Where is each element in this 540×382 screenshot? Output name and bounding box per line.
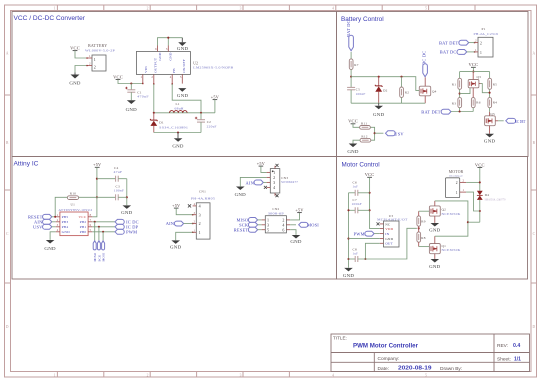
- svg-text:R12: R12: [361, 135, 367, 139]
- ground (CN2): [290, 235, 302, 244]
- svg-text:Sheet:: Sheet:: [497, 357, 511, 363]
- svg-text:ON/OFF: ON/OFF: [182, 59, 186, 73]
- svg-text:VCC: VCC: [113, 74, 123, 79]
- svg-text:GND: GND: [484, 138, 496, 143]
- net flag BAT DET (to P1 pin2): [439, 40, 474, 45]
- wire R10 left to RESET row: [55, 197, 67, 217]
- wire divider sense rail: [451, 111, 473, 113]
- svg-text:2: 2: [456, 181, 458, 185]
- section box Motor Control: [337, 157, 528, 280]
- ground (output filter): [172, 133, 184, 149]
- svg-text:OUT: OUT: [385, 242, 393, 246]
- svg-text:5: 5: [425, 373, 427, 377]
- IC U1 ATTINY85: [56, 203, 93, 236]
- svg-text:REV:: REV:: [497, 343, 508, 349]
- svg-text:D4: D4: [485, 193, 490, 197]
- wire U3 gnd row: [349, 238, 380, 240]
- capacitor C4 47uF: [97, 166, 127, 182]
- node junction RESET/R10: [54, 216, 56, 218]
- svg-text:PB4: PB4: [62, 225, 69, 229]
- svg-text:2: 2: [151, 75, 153, 79]
- svg-text:1: 1: [463, 188, 465, 192]
- svg-text:R8: R8: [421, 236, 425, 240]
- wire U1 GND pin: [50, 232, 56, 240]
- svg-text:6: 6: [155, 47, 157, 51]
- svg-text:3008-6P: 3008-6P: [268, 212, 284, 216]
- ground (driver rail): [343, 268, 355, 278]
- capacitor C5 100nF: [347, 77, 366, 104]
- svg-text:LM2596SX-5.0/NOPB: LM2596SX-5.0/NOPB: [193, 66, 234, 70]
- wire R10 right through C3: [79, 196, 116, 198]
- svg-text:PB3: PB3: [62, 220, 69, 224]
- svg-text:2: 2: [463, 178, 465, 182]
- wire CN3 pin2 to gnd: [240, 177, 266, 186]
- node junction gate tap: [459, 93, 461, 95]
- svg-text:PWM: PWM: [354, 231, 365, 236]
- svg-text:GND: GND: [62, 230, 70, 234]
- net flag MISO (vertical): [93, 241, 97, 262]
- capacitor C6 1uF: [349, 181, 370, 196]
- wire gnd rail left: [348, 193, 350, 268]
- svg-text:1/1: 1/1: [514, 357, 521, 363]
- svg-text:BC DC: BC DC: [422, 51, 427, 65]
- svg-text:3: 3: [199, 212, 201, 217]
- svg-text:PB5: PB5: [62, 215, 69, 219]
- IC U3 MCP1416: [377, 214, 408, 247]
- net flag SCK (vertical): [97, 241, 101, 262]
- wire USV tap to flag: [375, 132, 384, 134]
- resistor R2: [400, 77, 410, 104]
- diode D4 TVS: [477, 191, 506, 202]
- svg-text:SMAJ50A_C&0779: SMAJ50A_C&0779: [485, 198, 506, 201]
- resistor R9: [417, 211, 426, 230]
- resistor R11: [353, 121, 370, 129]
- transistor Q5: [485, 112, 498, 134]
- svg-text:USV: USV: [394, 131, 404, 136]
- resistor R7: [349, 59, 358, 70]
- svg-text:VCC: VCC: [348, 119, 358, 124]
- svg-text:+5V: +5V: [93, 162, 101, 167]
- wire OUTPUT down to switch node: [153, 84, 155, 113]
- svg-text:GND: GND: [343, 273, 355, 278]
- power flag VCC (battery input): [70, 46, 80, 51]
- svg-text:1: 1: [89, 54, 91, 58]
- svg-text:Company:: Company:: [378, 356, 400, 362]
- node junction motor pin2: [479, 181, 481, 183]
- svg-text:Q5: Q5: [490, 112, 495, 116]
- net flag BAT DET (divider sense): [421, 109, 451, 114]
- transistor Q4: [419, 77, 436, 103]
- svg-text:+5V: +5V: [257, 161, 265, 166]
- wire C4 corner down: [126, 179, 128, 206]
- svg-text:SS34_C163891: SS34_C163891: [159, 125, 188, 129]
- ground (U1): [44, 240, 56, 251]
- transistor Q3: [468, 72, 489, 98]
- svg-text:BAT DET: BAT DET: [439, 40, 458, 45]
- node junction rail C7: [347, 209, 349, 211]
- svg-text:PWM Motor Controller: PWM Motor Controller: [353, 343, 418, 350]
- wire motor pin2: [466, 181, 480, 183]
- wire VCC rail: [460, 71, 490, 73]
- svg-text:R11: R11: [361, 121, 367, 125]
- svg-text:NCE3050K: NCE3050K: [442, 212, 462, 216]
- svg-text:Date:: Date:: [378, 366, 389, 372]
- inductor L1 68uH: [170, 102, 188, 113]
- svg-text:GND: GND: [385, 237, 393, 241]
- svg-text:USV: USV: [33, 225, 43, 230]
- svg-text:NC: NC: [385, 222, 391, 226]
- resistor R12: [353, 135, 371, 144]
- svg-text:GND: GND: [290, 239, 302, 244]
- net flag BC DET: [498, 118, 526, 124]
- svg-text:+5V: +5V: [172, 203, 180, 208]
- net flag AIN (PB3): [34, 219, 56, 224]
- connector CN2 3008-6P: [262, 207, 291, 233]
- wire node to trunk: [468, 221, 480, 223]
- node junction rail C8: [347, 258, 349, 260]
- power flag +5V (CN3): [257, 161, 267, 172]
- net flag BC DC (vertical): [422, 51, 428, 77]
- node junction R2: [400, 76, 402, 78]
- svg-text:PB1: PB1: [80, 225, 87, 229]
- ground (R12): [347, 144, 359, 154]
- section box Battery Control: [337, 12, 529, 157]
- node junction C3 right: [126, 196, 128, 198]
- ground (Q5): [484, 134, 496, 144]
- resistor R1: [452, 72, 462, 90]
- svg-text:AIN: AIN: [246, 181, 255, 186]
- wire FB loop: [172, 84, 201, 113]
- power flag VCC (USV divider): [348, 119, 358, 124]
- svg-text:VCC: VCC: [475, 162, 485, 167]
- svg-text:S03960477: S03960477: [281, 180, 298, 184]
- wire ISP drops: [94, 222, 96, 241]
- svg-text:VDD: VDD: [385, 227, 393, 231]
- power flag VCC (divider): [469, 62, 479, 71]
- svg-text:GND: GND: [429, 228, 441, 233]
- svg-text:5: 5: [425, 7, 427, 11]
- node junction motor node: [467, 221, 469, 223]
- svg-text:R2: R2: [405, 91, 409, 95]
- svg-text:Attiny IC: Attiny IC: [14, 161, 39, 168]
- ground (U2 top): [177, 38, 189, 51]
- net flag SCK (CN2): [239, 222, 262, 227]
- svg-text:1: 1: [456, 191, 458, 195]
- ground (Q1): [429, 259, 441, 269]
- wire gate rail: [351, 77, 419, 91]
- node junction switch node: [153, 112, 155, 114]
- svg-text:47uF: 47uF: [114, 170, 123, 174]
- wire Q2 drain to motor node: [435, 201, 468, 236]
- svg-text:Drawn By:: Drawn By:: [440, 366, 462, 372]
- svg-text:5: 5: [180, 75, 182, 79]
- net flag PWM (driver input): [354, 231, 380, 236]
- svg-text:OUTPUT: OUTPUT: [153, 57, 157, 73]
- svg-text:GND: GND: [170, 245, 182, 250]
- svg-text:BC DET: BC DET: [515, 119, 526, 124]
- svg-text:4: 4: [273, 185, 275, 190]
- svg-text:100nF: 100nF: [114, 189, 124, 193]
- svg-text:100nF: 100nF: [356, 92, 366, 96]
- wire motor pin1 down: [466, 192, 480, 211]
- svg-text:3: 3: [166, 47, 168, 51]
- ground (U2 ON/OFF): [177, 88, 189, 98]
- power flag VCC (regulator input): [113, 74, 123, 79]
- connector MOTOR: [446, 170, 467, 197]
- node junction USV tap: [374, 132, 376, 134]
- net flag IC DP: [115, 224, 139, 229]
- svg-text:GND: GND: [121, 210, 133, 215]
- svg-text:GND: GND: [169, 52, 173, 60]
- svg-text:R6: R6: [476, 101, 480, 105]
- svg-text:PWM: PWM: [126, 230, 137, 235]
- node junction C5 tap: [350, 76, 352, 78]
- net flag RESET: [28, 214, 56, 219]
- capacitor C8 1uF: [349, 247, 359, 262]
- svg-text:+5V: +5V: [295, 208, 303, 213]
- svg-text:GND: GND: [429, 264, 441, 269]
- node junction ISP taps: [94, 221, 96, 223]
- wire battery sense bottom rail: [351, 102, 425, 104]
- net flag BAT DC (to P1 pin1): [440, 50, 475, 55]
- svg-text:VCC / DC-DC Converter: VCC / DC-DC Converter: [14, 15, 86, 22]
- power flag +5V (CN2): [290, 208, 304, 220]
- node junction Q3 drain tap: [489, 92, 491, 94]
- node junction top gnd: [167, 37, 169, 39]
- wire U3 out loop: [365, 243, 379, 259]
- wire U2 top GND pins: [158, 38, 183, 46]
- wire battery pin 2 to GND: [75, 66, 87, 73]
- svg-text:U1: U1: [71, 203, 76, 207]
- capacitor C1 470uF: [125, 84, 149, 101]
- svg-text:MOSI: MOSI: [307, 223, 319, 228]
- wire VCC rail to VDD: [370, 177, 380, 228]
- svg-text:MOSI: MOSI: [102, 253, 106, 262]
- power flag +5V (CN1): [172, 203, 193, 215]
- svg-text:BAT DC: BAT DC: [440, 50, 457, 55]
- ground (C1): [126, 100, 138, 112]
- svg-text:BAT DET: BAT DET: [421, 110, 440, 115]
- ground (battery): [69, 73, 81, 86]
- svg-text:2: 2: [475, 39, 477, 43]
- node junction out/C8: [364, 258, 366, 260]
- power flag +5V output: [211, 95, 219, 113]
- net flag MISO (CN2): [236, 218, 261, 223]
- resistor R3: [452, 98, 462, 112]
- net flag USV (PB4): [33, 224, 56, 229]
- svg-text:R4: R4: [493, 101, 497, 105]
- svg-text:4: 4: [332, 7, 334, 11]
- title block: [331, 334, 530, 372]
- wire VCC to U2 VIN: [118, 79, 143, 83]
- svg-text:5: 5: [267, 227, 269, 232]
- svg-text:WL000V-5.0-2P: WL000V-5.0-2P: [85, 49, 115, 53]
- wire R11 to USV node: [370, 127, 374, 140]
- svg-text:2: 2: [89, 62, 91, 66]
- resistor R10: [67, 191, 78, 199]
- svg-text:0.4: 0.4: [513, 343, 520, 349]
- svg-text:2: 2: [147, 7, 149, 11]
- svg-text:CN2: CN2: [272, 207, 279, 211]
- svg-text:R5: R5: [493, 82, 497, 86]
- wire PB2 row: [92, 221, 115, 223]
- diode D2: [375, 77, 387, 104]
- wire PB1 row: [92, 226, 115, 228]
- svg-text:4: 4: [332, 373, 334, 377]
- svg-text:3: 3: [240, 373, 242, 377]
- svg-text:1: 1: [54, 7, 56, 11]
- svg-text:3: 3: [240, 7, 242, 11]
- capacitor C2 220uF: [195, 113, 217, 133]
- svg-text:470uF: 470uF: [137, 94, 149, 98]
- diode D1 SS34: [150, 113, 188, 133]
- svg-text:C2: C2: [207, 120, 211, 124]
- svg-text:VIN: VIN: [144, 66, 148, 73]
- wire VCC to motor/D4: [479, 167, 481, 190]
- svg-text:GND: GND: [373, 112, 385, 117]
- svg-text:2: 2: [480, 42, 482, 46]
- wire +5V rail down to VCC pin: [92, 167, 97, 217]
- net flag MOSI (vertical): [102, 241, 106, 262]
- svg-text:RESET: RESET: [234, 227, 249, 232]
- wire CN2 pin6 to gnd: [290, 230, 296, 235]
- svg-text:1: 1: [475, 48, 477, 52]
- wire VCC to battery pin 1: [75, 51, 87, 58]
- svg-text:R10: R10: [70, 191, 76, 195]
- svg-text:Q4: Q4: [432, 90, 437, 94]
- resistor R8: [417, 228, 426, 246]
- wire bottom return rail: [154, 132, 201, 134]
- wire R7 to gate rail: [350, 69, 352, 76]
- section box VCC / DC-DC Converter: [12, 12, 337, 157]
- node junction D4 bottom: [479, 210, 481, 212]
- svg-text:ATTINY85V-10SU2: ATTINY85V-10SU2: [58, 208, 92, 212]
- node junction R3 bottom: [459, 110, 461, 112]
- connector CN3: [264, 164, 299, 197]
- ground (battery sense): [373, 103, 385, 117]
- svg-text:A: A: [532, 52, 535, 56]
- ground (CN3): [235, 187, 247, 198]
- svg-text:68uH: 68uH: [175, 106, 185, 110]
- connector P1 PH-2A_C2319: [474, 27, 499, 57]
- section box Attiny IC: [12, 157, 337, 280]
- connector BATTERY: [85, 43, 115, 71]
- svg-text:1: 1: [140, 75, 142, 79]
- svg-text:4: 4: [170, 75, 172, 79]
- net flag BAT DC (vertical): [346, 20, 353, 59]
- net flag AIN (CN1): [166, 221, 193, 226]
- net flag MOSI (CN2): [290, 222, 319, 227]
- node junction C4 row: [96, 178, 98, 180]
- net flag AIN (CN3): [246, 180, 267, 186]
- svg-text:GND: GND: [44, 246, 56, 251]
- svg-text:NCE3050K: NCE3050K: [442, 248, 462, 252]
- svg-text:D: D: [532, 325, 535, 329]
- svg-text:GND: GND: [235, 192, 247, 197]
- capacitor C7 100nF: [349, 198, 370, 213]
- svg-text:GND: GND: [69, 81, 81, 86]
- svg-text:D1: D1: [159, 121, 164, 125]
- svg-text:BAT DC: BAT DC: [346, 20, 351, 37]
- node junction rail U3 gnd: [347, 238, 349, 240]
- svg-text:220uF: 220uF: [207, 125, 217, 129]
- svg-text:GND: GND: [177, 93, 189, 98]
- net flag PWM: [115, 229, 137, 234]
- transistor Q1 NCE3050K: [429, 236, 461, 259]
- svg-text:AIN: AIN: [166, 221, 175, 226]
- power flag +5V (attiny): [93, 162, 101, 167]
- svg-text:1: 1: [94, 57, 96, 62]
- wire out to gate resistors: [358, 228, 417, 259]
- svg-text:2020-08-19: 2020-08-19: [398, 366, 432, 372]
- wire switch node rail: [154, 112, 215, 114]
- ground (C3/C4): [121, 205, 133, 214]
- svg-text:D: D: [6, 325, 9, 329]
- svg-text:6: 6: [282, 227, 284, 232]
- node junction gnd tap: [177, 131, 179, 133]
- svg-text:+5V: +5V: [211, 95, 219, 100]
- net flag IC DC: [115, 219, 139, 224]
- wire R1 to R3: [459, 89, 461, 97]
- op-amp U2 LM2596 regulator: [136, 46, 234, 85]
- resistor R5: [488, 72, 497, 90]
- svg-text:VCC: VCC: [70, 46, 80, 51]
- svg-text:4: 4: [199, 204, 201, 209]
- wire R9 to Q2 gate: [419, 210, 430, 212]
- svg-text:R7: R7: [354, 63, 358, 67]
- node junction output node: [200, 112, 202, 114]
- capacitor C3 100nF: [114, 185, 127, 201]
- svg-text:GND: GND: [158, 52, 162, 60]
- svg-text:1uF: 1uF: [353, 251, 359, 255]
- svg-text:1: 1: [480, 51, 482, 55]
- svg-text:GND: GND: [126, 107, 138, 112]
- svg-text:PB2: PB2: [80, 220, 87, 224]
- svg-text:1uF: 1uF: [353, 185, 359, 189]
- transistor Q2 NCE3050K: [429, 201, 461, 223]
- node junction C6: [369, 192, 371, 194]
- node junction C3 row: [96, 196, 98, 198]
- net flag USV: [386, 131, 405, 137]
- node junction at C1 tap: [130, 82, 132, 84]
- node junction VCC rail: [472, 71, 474, 73]
- svg-text:GND: GND: [347, 149, 359, 154]
- svg-text:FB: FB: [172, 68, 176, 73]
- svg-text:MOTOR: MOTOR: [449, 170, 464, 174]
- resistor R4: [488, 98, 497, 112]
- resistor R6: [471, 98, 480, 112]
- svg-text:2: 2: [94, 64, 96, 69]
- svg-text:IN: IN: [385, 232, 389, 236]
- svg-text:VCC: VCC: [469, 62, 479, 67]
- power flag VCC (motor): [475, 162, 485, 167]
- node junction D2: [378, 76, 380, 78]
- svg-text:R1: R1: [452, 82, 456, 86]
- svg-text:GND: GND: [172, 143, 184, 148]
- svg-text:VCC: VCC: [79, 215, 87, 219]
- svg-text:R9: R9: [421, 219, 425, 223]
- svg-text:Q3: Q3: [477, 75, 482, 79]
- svg-text:PH-2A_C2319: PH-2A_C2319: [474, 32, 499, 36]
- wire R5 to R4: [489, 89, 491, 97]
- svg-text:100nF: 100nF: [352, 202, 362, 206]
- svg-text:BATTERY: BATTERY: [88, 43, 107, 48]
- ground (CN1): [170, 240, 182, 249]
- ground (Q2): [429, 223, 441, 233]
- net flag RESET (CN2): [234, 227, 262, 232]
- svg-text:PB0: PB0: [80, 230, 87, 234]
- svg-text:D2: D2: [383, 88, 388, 92]
